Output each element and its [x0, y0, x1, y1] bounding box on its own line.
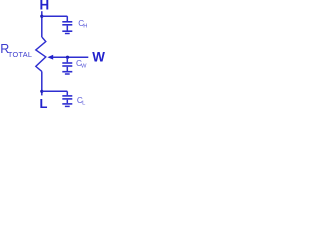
- capacitor CH: [62, 16, 72, 30]
- svg-text:W: W: [81, 64, 87, 70]
- capacitor CW: [62, 57, 72, 71]
- node L junction dot: [40, 90, 43, 93]
- svg-text:H: H: [39, 0, 49, 13]
- wire H vertical lead: [41, 11, 43, 37]
- svg-text:TOTAL: TOTAL: [8, 50, 32, 59]
- wire wiper to W: [53, 56, 89, 58]
- wire L vertical lead: [41, 71, 43, 95]
- capacitor CL: [62, 91, 72, 103]
- svg-text:L: L: [40, 96, 48, 111]
- wire H to capacitor CH: [42, 15, 68, 17]
- wire L to capacitor CL: [42, 90, 68, 92]
- resistor RTOTAL zigzag: [36, 37, 46, 71]
- node W junction dot: [66, 56, 69, 59]
- svg-text:H: H: [83, 24, 87, 30]
- ground (CH): [62, 31, 72, 33]
- svg-text:W: W: [92, 50, 105, 65]
- node H junction dot: [40, 15, 43, 18]
- ground (CW): [62, 72, 72, 74]
- ground (CL): [62, 104, 72, 107]
- background: [0, 0, 106, 116]
- wiper arrow: [47, 55, 53, 60]
